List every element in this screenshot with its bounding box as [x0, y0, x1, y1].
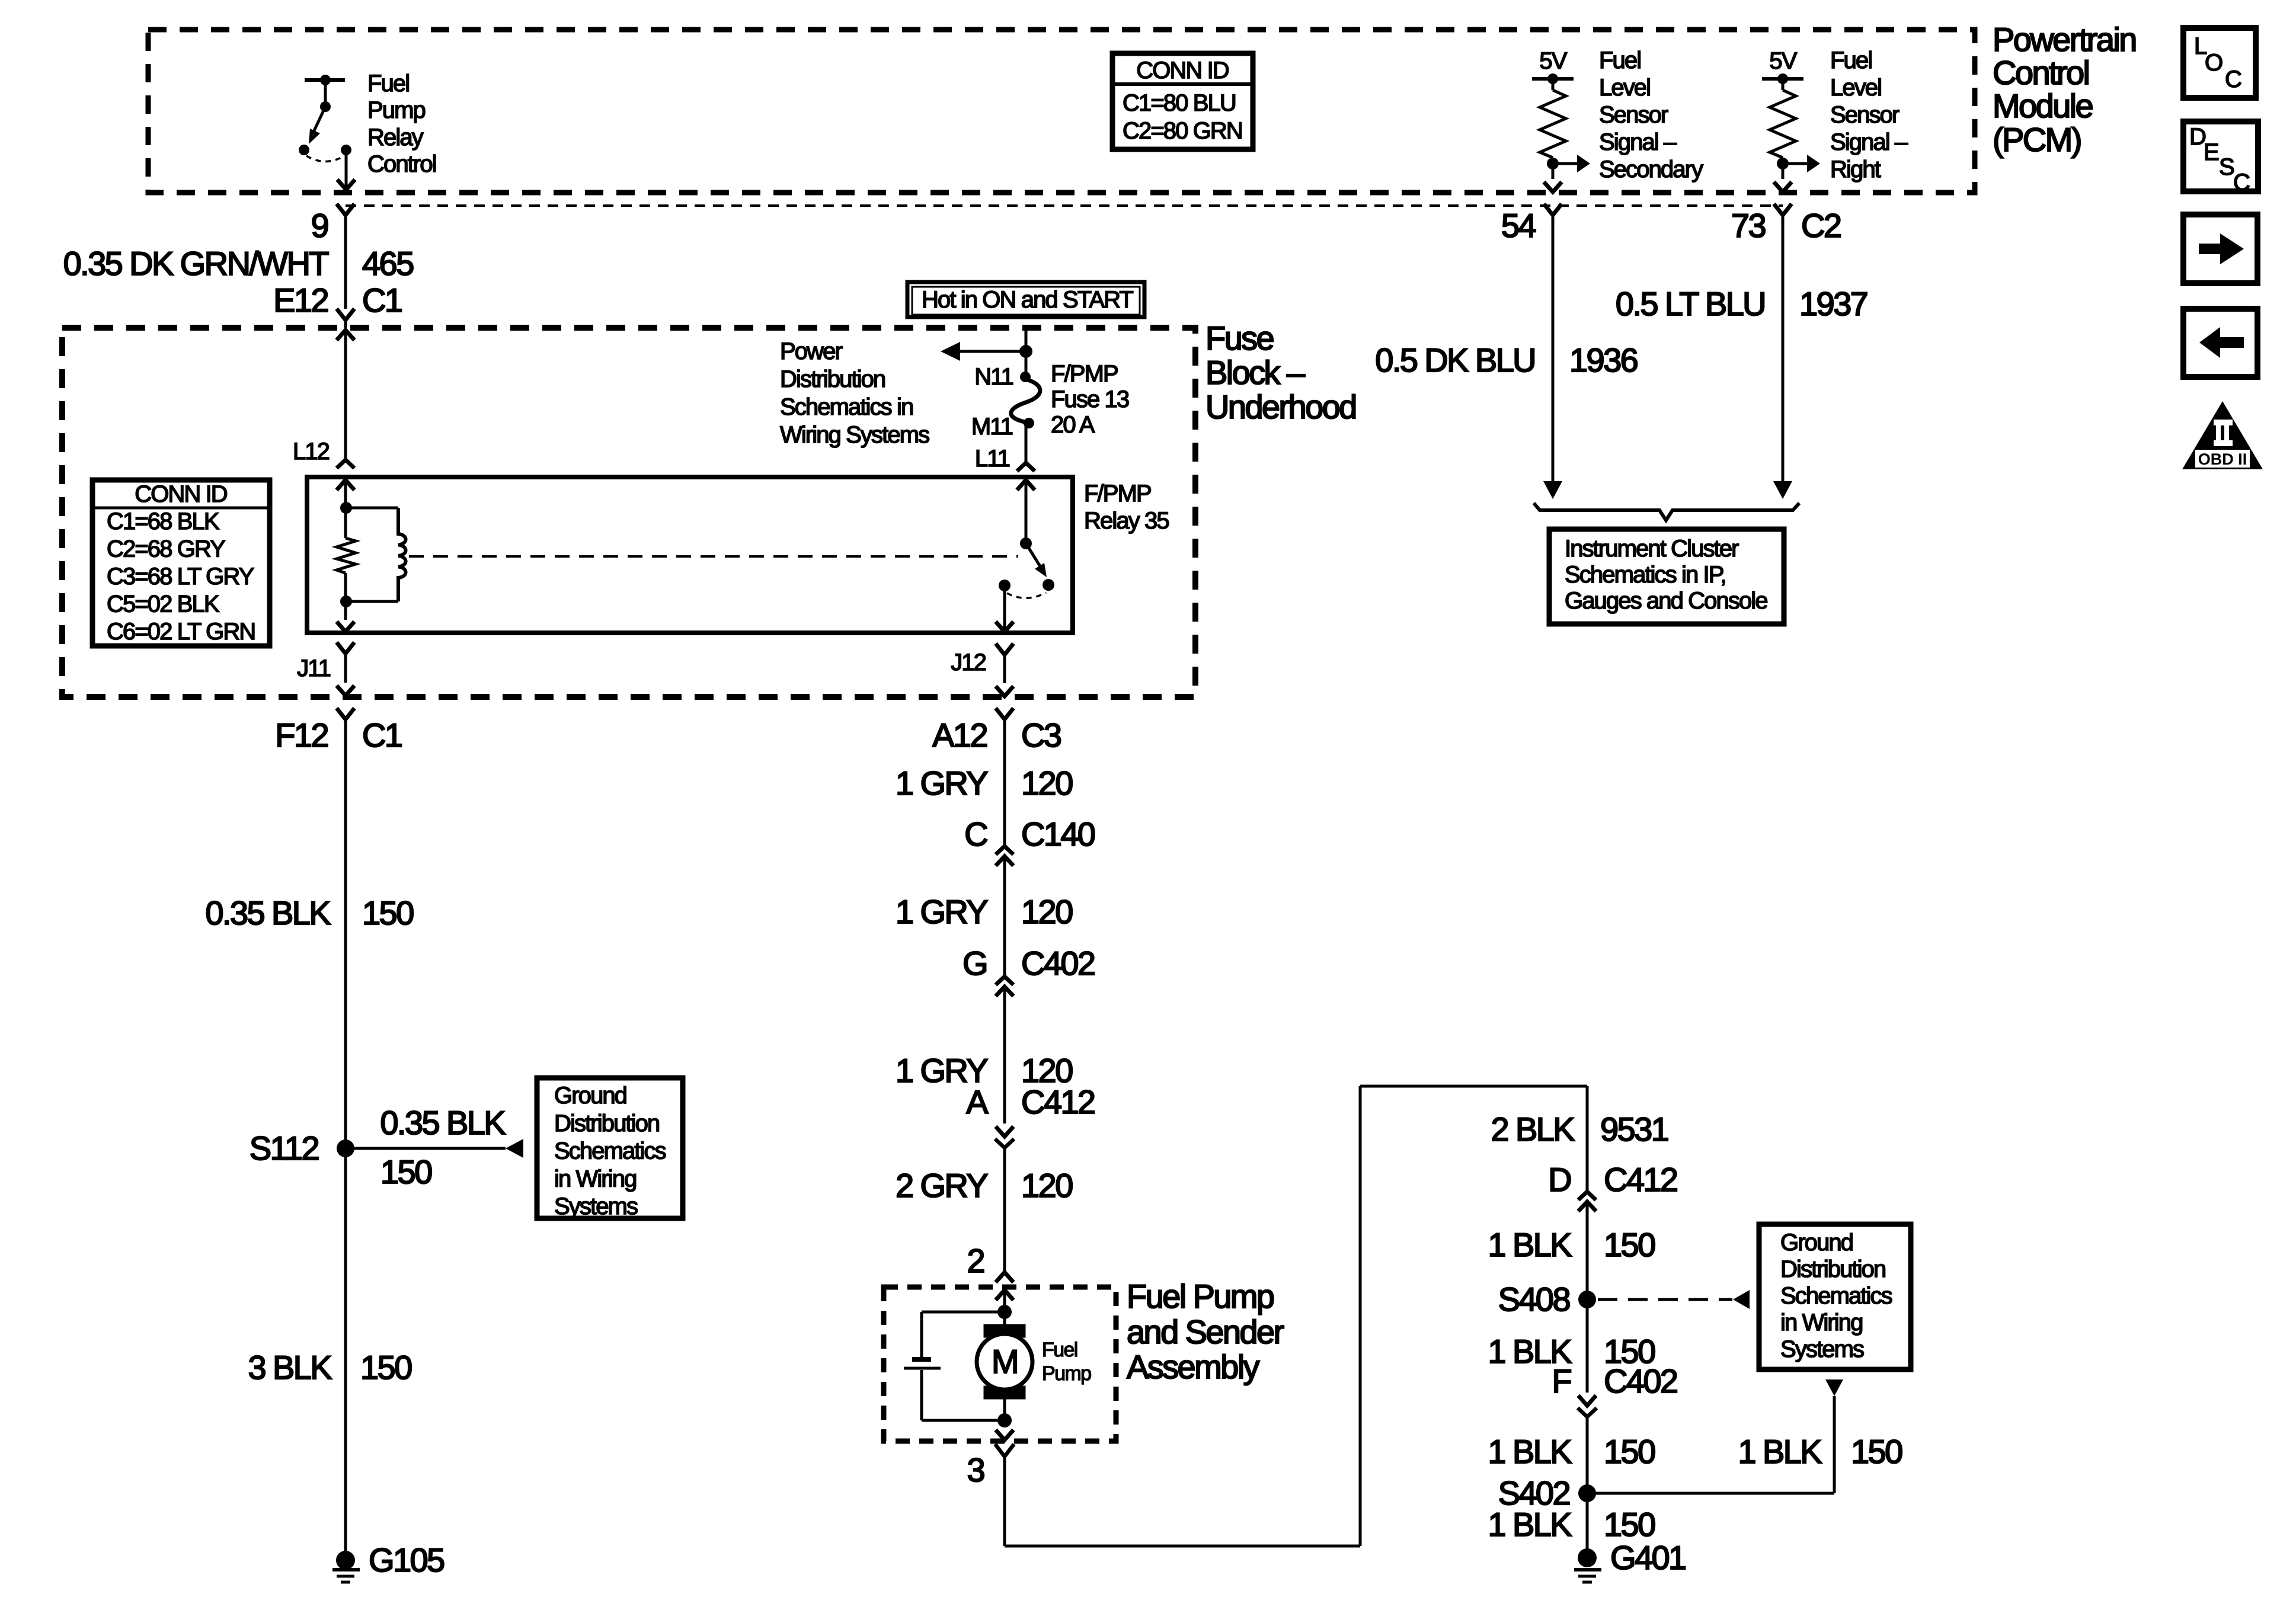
wire E12 into fuse block	[337, 330, 354, 468]
svg-text:0.35 BLK: 0.35 BLK	[205, 894, 331, 932]
svg-text:G105: G105	[369, 1541, 444, 1579]
svg-text:C1=80 BLU: C1=80 BLU	[1123, 90, 1236, 116]
svg-text:C412: C412	[1021, 1083, 1095, 1121]
label Fuel Pump and Sender Assembly	[1127, 1278, 1284, 1385]
svg-text:C402: C402	[1604, 1362, 1677, 1400]
svg-text:C5=02 BLK: C5=02 BLK	[107, 591, 220, 617]
relay switch contacts	[999, 579, 1054, 591]
label 0.35 BLK 150	[205, 894, 413, 932]
svg-text:2: 2	[967, 1242, 984, 1279]
PCM connector C1 C2 separator dashed line	[346, 204, 1783, 207]
wire 1937 LT BLU	[1773, 216, 1792, 499]
label 0.5 LT BLU 1937	[1616, 285, 1868, 322]
relay actuation dashed link	[409, 555, 1018, 558]
svg-text:1 BLK: 1 BLK	[1488, 1433, 1572, 1470]
resistor 5V pullup fuel level sensor right	[1762, 48, 1820, 192]
svg-text:9531: 9531	[1600, 1110, 1668, 1148]
svg-text:CONN ID: CONN ID	[1136, 57, 1229, 84]
svg-text:S112: S112	[250, 1129, 319, 1167]
power distribution arrow	[941, 342, 1026, 361]
svg-text:5V: 5V	[1539, 48, 1567, 74]
svg-text:Signal –: Signal –	[1599, 129, 1677, 155]
svg-text:Pump: Pump	[367, 97, 426, 123]
svg-text:A: A	[966, 1083, 989, 1121]
svg-text:120: 120	[1021, 893, 1072, 930]
label 0.35 DK GRN/WHT 465	[63, 245, 414, 282]
splice S402	[1498, 1474, 1834, 1512]
label 1 BLK 150 b	[1488, 1333, 1655, 1370]
svg-text:Distribution: Distribution	[1780, 1256, 1885, 1282]
relay coil junction bottom	[340, 596, 352, 607]
svg-text:150: 150	[380, 1153, 431, 1190]
svg-text:Right: Right	[1830, 156, 1881, 183]
svg-text:F/PMP: F/PMP	[1051, 361, 1118, 387]
svg-text:Ground: Ground	[1780, 1230, 1853, 1256]
svg-text:150: 150	[1604, 1433, 1655, 1470]
svg-text:Schematics: Schematics	[1780, 1283, 1892, 1309]
relay coil input arrow	[337, 480, 354, 538]
svg-text:1937: 1937	[1799, 285, 1868, 322]
svg-text:Distribution: Distribution	[554, 1110, 659, 1137]
relay switch arm	[1026, 543, 1047, 577]
svg-text:150: 150	[1851, 1433, 1902, 1470]
svg-text:G401: G401	[1610, 1539, 1686, 1576]
svg-text:Systems: Systems	[1780, 1336, 1864, 1362]
label 1 GRY 120 b	[896, 893, 1072, 930]
svg-text:S408: S408	[1498, 1281, 1570, 1318]
svg-text:J11: J11	[297, 655, 330, 681]
svg-text:Schematics in: Schematics in	[780, 394, 913, 420]
battery sender	[904, 1312, 1005, 1420]
connector F12 C1	[275, 708, 402, 754]
label F/PMP Relay 35	[1084, 481, 1169, 534]
svg-text:C402: C402	[1021, 945, 1095, 982]
svg-text:1936: 1936	[1569, 341, 1638, 379]
svg-text:C3: C3	[1021, 716, 1061, 754]
svg-text:O: O	[2205, 50, 2223, 76]
ground branch from box	[1825, 1379, 1843, 1493]
label 2 BLK 9531	[1491, 1110, 1668, 1148]
svg-text:Relay: Relay	[367, 124, 424, 151]
svg-text:Relay 35: Relay 35	[1084, 508, 1169, 534]
brace under wires	[1534, 503, 1799, 520]
splice S408	[1498, 1281, 1596, 1318]
wire S112 branch	[346, 1139, 523, 1158]
svg-text:1 BLK: 1 BLK	[1488, 1226, 1572, 1263]
svg-text:465: 465	[362, 245, 413, 282]
connector D C412	[1548, 1161, 1677, 1299]
svg-text:Gauges and Console: Gauges and Console	[1565, 588, 1767, 614]
wire pump return	[1005, 1086, 1587, 1546]
svg-text:C140: C140	[1021, 815, 1095, 853]
svg-text:C6=02 LT GRN: C6=02 LT GRN	[107, 619, 255, 645]
svg-text:L11: L11	[975, 446, 1010, 472]
PCM module dashed box	[148, 30, 1975, 193]
svg-text:C3=68 LT GRY: C3=68 LT GRY	[107, 564, 254, 590]
connector E12 C1	[273, 281, 402, 328]
svg-text:150: 150	[362, 894, 413, 932]
svg-text:54: 54	[1501, 207, 1536, 244]
svg-text:Sensor: Sensor	[1599, 102, 1668, 128]
svg-text:Schematics in IP,: Schematics in IP,	[1565, 562, 1726, 588]
Instrument Cluster reference box	[1549, 529, 1784, 624]
svg-text:Pump: Pump	[1042, 1362, 1091, 1385]
connector pin 54 chevron	[1544, 204, 1562, 215]
wire 150 BLK left	[344, 721, 347, 1551]
svg-text:2 BLK: 2 BLK	[1491, 1110, 1575, 1148]
wire fuse feed	[1019, 328, 1032, 374]
wire relay control output	[337, 150, 355, 190]
forward arrow icon	[2183, 215, 2257, 283]
relay resistor	[337, 538, 356, 601]
label F/PMP Fuse 13 20A	[1051, 361, 1129, 438]
svg-text:D: D	[1548, 1161, 1571, 1198]
label 2 GRY 120	[896, 1167, 1072, 1204]
ground G105	[332, 1541, 444, 1582]
svg-text:F/PMP: F/PMP	[1084, 481, 1151, 507]
svg-text:C1: C1	[362, 716, 402, 754]
DESC icon box	[2183, 121, 2258, 196]
svg-text:D: D	[2189, 124, 2205, 150]
CONN ID table fuse block	[92, 480, 270, 646]
label 1 GRY 120 c	[896, 1052, 1072, 1089]
svg-text:3: 3	[967, 1451, 984, 1489]
label Fuel Level Sensor Signal Right	[1830, 47, 1908, 183]
svg-text:A12: A12	[932, 716, 987, 754]
label 0.5 DK BLU 1936	[1375, 341, 1637, 379]
svg-text:Fuel Pump: Fuel Pump	[1127, 1278, 1274, 1315]
svg-text:E12: E12	[273, 281, 328, 319]
connector pin 2 fuel pump	[967, 1242, 1013, 1282]
svg-text:M: M	[992, 1343, 1018, 1380]
svg-text:Underhood: Underhood	[1205, 388, 1356, 425]
svg-text:Control: Control	[1993, 54, 2089, 91]
svg-text:1 BLK: 1 BLK	[1738, 1433, 1822, 1470]
back arrow icon	[2183, 309, 2257, 377]
relay switch output	[996, 585, 1013, 632]
wire fuse to relay	[1017, 426, 1035, 471]
label 1 BLK 150 branch	[1738, 1433, 1902, 1470]
svg-text:Secondary: Secondary	[1599, 156, 1703, 183]
Fuse Block title	[1205, 319, 1356, 425]
relay box F/PMP Relay 35	[307, 477, 1073, 633]
CONN ID table PCM	[1112, 53, 1253, 149]
svg-text:C2=68 GRY: C2=68 GRY	[107, 536, 225, 562]
label L12	[293, 438, 330, 465]
connector pin 9 chevron	[337, 204, 354, 215]
svg-text:20 A: 20 A	[1051, 412, 1095, 438]
resistor 5V pullup fuel level sensor secondary	[1532, 48, 1590, 192]
svg-text:OBD II: OBD II	[2198, 450, 2247, 468]
Fuse Block dashed box	[62, 328, 1195, 697]
label Fuel Level Sensor Signal Secondary	[1599, 47, 1703, 183]
connector F C402	[1552, 1362, 1677, 1493]
svg-text:in Wiring: in Wiring	[554, 1166, 637, 1192]
svg-text:3 BLK: 3 BLK	[248, 1349, 332, 1386]
svg-text:in Wiring: in Wiring	[1780, 1310, 1863, 1336]
svg-text:Module: Module	[1993, 87, 2093, 124]
svg-text:Fuse 13: Fuse 13	[1051, 386, 1129, 412]
label L11	[975, 446, 1010, 472]
connector A12 C3	[932, 708, 1061, 754]
fuse F13 F/PMP 20A	[1011, 372, 1040, 428]
label 1 BLK 150 d	[1488, 1506, 1655, 1543]
pump input arrow	[996, 1290, 1013, 1319]
label M11	[971, 414, 1013, 440]
svg-text:Block –: Block –	[1205, 354, 1306, 391]
svg-text:120: 120	[1021, 1167, 1072, 1204]
svg-text:0.35 DK GRN/WHT: 0.35 DK GRN/WHT	[63, 245, 329, 282]
svg-text:Hot in ON and START: Hot in ON and START	[922, 287, 1133, 313]
svg-text:(PCM): (PCM)	[1993, 121, 2081, 158]
label Power Distribution Schematics	[780, 338, 929, 448]
svg-text:1 BLK: 1 BLK	[1488, 1506, 1572, 1543]
connector pin 73 chevron	[1774, 204, 1792, 215]
S408 dashed branch	[1598, 1290, 1750, 1309]
svg-text:C: C	[2233, 169, 2250, 196]
relay switch input	[1017, 480, 1035, 549]
relay coil junction top	[340, 502, 352, 514]
svg-text:9: 9	[311, 207, 328, 244]
svg-text:C1: C1	[362, 281, 402, 319]
wire 1936 DK BLU	[1543, 216, 1562, 499]
svg-text:2 GRY: 2 GRY	[896, 1167, 988, 1204]
svg-text:Level: Level	[1599, 75, 1650, 101]
svg-text:C1=68 BLK: C1=68 BLK	[107, 508, 220, 534]
svg-text:Fuel: Fuel	[367, 71, 409, 97]
label 0.35 BLK 150 branch	[380, 1104, 506, 1190]
LOC icon box	[2183, 28, 2256, 98]
svg-text:Fuel: Fuel	[1042, 1339, 1077, 1361]
svg-text:Fuel: Fuel	[1830, 47, 1872, 73]
svg-text:C2=80 GRN: C2=80 GRN	[1123, 118, 1242, 144]
svg-text:73: 73	[1731, 207, 1766, 244]
svg-text:0.35 BLK: 0.35 BLK	[380, 1104, 506, 1141]
svg-text:E: E	[2204, 139, 2218, 165]
svg-text:C2: C2	[1801, 207, 1841, 244]
svg-text:Fuel: Fuel	[1599, 47, 1641, 73]
svg-text:Signal –: Signal –	[1830, 129, 1908, 155]
OBD II icon	[2182, 401, 2263, 469]
pin 73 label	[1731, 207, 1841, 244]
svg-text:150: 150	[360, 1349, 411, 1386]
svg-text:1 GRY: 1 GRY	[896, 764, 988, 802]
label 1 BLK 150 c	[1488, 1433, 1655, 1470]
PCM title text	[1993, 21, 2136, 158]
svg-text:Level: Level	[1830, 75, 1881, 101]
switch S1 Fuel Pump Relay Control	[299, 75, 351, 162]
splice S112	[250, 1129, 354, 1167]
label N11	[974, 364, 1013, 390]
relay coil inductor	[346, 508, 406, 601]
connector J11	[297, 642, 354, 696]
connector C C140	[964, 815, 1095, 977]
svg-text:L12: L12	[293, 438, 330, 465]
wire S408 to F	[1586, 1299, 1589, 1393]
svg-text:1 GRY: 1 GRY	[896, 893, 988, 930]
svg-text:C: C	[964, 815, 987, 853]
label 1 GRY 120 a	[896, 764, 1072, 802]
svg-text:M11: M11	[971, 414, 1013, 440]
motor M fuel pump	[977, 1312, 1032, 1399]
svg-text:Instrument Cluster: Instrument Cluster	[1565, 536, 1739, 562]
svg-text:G: G	[962, 945, 987, 982]
connector G C402	[962, 945, 1095, 1124]
svg-text:Powertrain: Powertrain	[1993, 21, 2136, 58]
connector pin 3 fuel pump	[967, 1444, 1014, 1489]
wire 465 DK GRN/WHT	[344, 216, 347, 309]
svg-text:S: S	[2219, 154, 2234, 180]
wire 9531 BLK	[1586, 1086, 1589, 1192]
connector J12	[951, 644, 1013, 696]
svg-text:Distribution: Distribution	[780, 366, 885, 392]
svg-text:Wiring Systems: Wiring Systems	[780, 422, 929, 448]
svg-text:Power: Power	[780, 338, 842, 364]
svg-text:0.5 LT BLU: 0.5 LT BLU	[1616, 285, 1765, 322]
svg-text:C412: C412	[1604, 1161, 1677, 1198]
svg-text:F: F	[1552, 1362, 1571, 1400]
label 1 BLK 150 a	[1488, 1226, 1655, 1263]
svg-text:Assembly: Assembly	[1127, 1348, 1260, 1385]
relay coil output arrow	[337, 601, 354, 632]
svg-text:5V: 5V	[1769, 48, 1797, 74]
svg-text:0.5 DK BLU: 0.5 DK BLU	[1375, 341, 1535, 379]
wire 120 GRY a	[1003, 721, 1006, 846]
wire S402 to G401	[1586, 1493, 1589, 1558]
svg-text:Schematics: Schematics	[554, 1138, 666, 1164]
svg-text:CONN ID: CONN ID	[135, 481, 227, 507]
svg-text:N11: N11	[974, 364, 1013, 390]
label 3 BLK 150	[248, 1349, 411, 1386]
svg-text:Fuse: Fuse	[1205, 319, 1274, 357]
svg-text:150: 150	[1604, 1506, 1655, 1543]
svg-text:Sensor: Sensor	[1830, 102, 1900, 128]
pump output	[996, 1399, 1013, 1440]
svg-text:Control: Control	[367, 151, 436, 177]
label Fuel Pump Relay Control	[367, 71, 436, 177]
Ground Distribution reference box right	[1759, 1224, 1911, 1369]
relay switch dashed arc	[1007, 593, 1046, 598]
Ground Distribution reference box left	[537, 1078, 683, 1219]
pin 54 label	[1501, 207, 1536, 244]
svg-text:and Sender: and Sender	[1127, 1313, 1284, 1350]
svg-text:Systems: Systems	[554, 1193, 638, 1219]
svg-text:150: 150	[1604, 1226, 1655, 1263]
pin 9 label	[311, 207, 328, 244]
svg-text:J12: J12	[951, 649, 986, 676]
svg-text:F12: F12	[275, 716, 328, 754]
Fuel Pump assembly dashed box	[884, 1287, 1116, 1441]
svg-text:120: 120	[1021, 764, 1072, 802]
svg-text:C: C	[2225, 66, 2241, 92]
connector A C412	[966, 1083, 1095, 1272]
Hot in ON and START box	[907, 282, 1144, 317]
ground G401	[1574, 1539, 1686, 1582]
label Fuel Pump small	[1042, 1339, 1091, 1385]
svg-text:Ground: Ground	[554, 1083, 626, 1109]
